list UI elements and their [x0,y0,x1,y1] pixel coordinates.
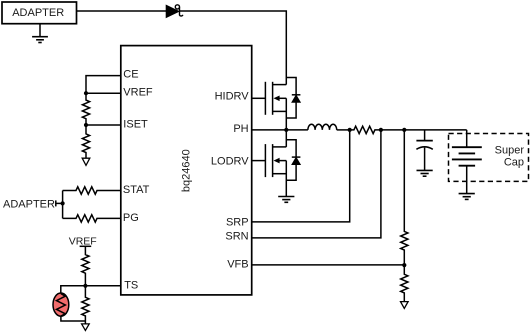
svg-text:Cap: Cap [504,157,524,169]
wire to thermistor [61,286,86,293]
body diode D3 [286,140,296,181]
wire tick to node [56,202,63,204]
sense resistor RS [350,126,381,133]
svg-text:LODRV: LODRV [211,156,249,168]
channel bar Q2 [272,144,274,177]
ground (ADAPTER) [32,37,48,43]
drain stub Q2 [273,146,287,148]
svg-text:PH: PH [233,123,248,135]
gate bar Q1 [264,82,266,115]
source stub Q2 [273,173,287,175]
ADAPTER box [2,2,77,24]
gate bar Q2 [264,144,266,177]
ground triangle (R2) [82,158,90,165]
ground triangle (R8) [401,302,409,309]
wire SRN [252,130,381,238]
supercap battery plates [452,147,482,166]
wire CE to vertical [86,76,121,94]
node TS junction [83,284,87,288]
resistor R7 (upper divider) [401,130,408,265]
wire supercap to ground [466,166,468,194]
gate lead Q1 [252,97,266,99]
channel bar Q1 [272,82,274,115]
svg-text:SRN: SRN [225,231,248,243]
wire PH [252,129,287,131]
drain stub Q1 [273,84,287,86]
source stub Q1 [273,110,287,112]
gate lead Q2 [252,160,266,162]
svg-text:HIDRV: HIDRV [215,90,250,102]
node VFB junction [402,263,406,267]
resistor R4 (TS-gnd) [82,286,89,324]
capacitor C1 [416,140,432,142]
resistor R3 (VREF-TS) [82,246,89,285]
wire inductor to Rsense [337,129,350,131]
wire C1 to ground [424,148,426,171]
wire VFB [252,264,405,266]
drain vertical Q2 [285,130,287,147]
svg-text:SRP: SRP [226,217,249,229]
node VFB top [402,128,406,132]
wire ADAPTER ground lead [39,24,41,37]
wire ISET [86,124,121,126]
node SRP [348,128,352,132]
wire SRP [252,130,350,222]
svg-text:ADAPTER: ADAPTER [3,198,55,210]
resistor R2 (ISET-gnd) [82,125,89,158]
wire D1 cathode to Q1 drain [180,11,287,85]
wire PH to inductor [286,129,308,131]
supercap dashed box [449,134,529,182]
source vertical Q2 [285,161,287,197]
source vertical Q1 [285,98,287,130]
node SRN [379,128,383,132]
resistor R1 (VREF-ISET) [82,93,89,125]
wire TS [85,285,120,287]
IC U1 bq24640 [121,46,252,295]
svg-text:TS: TS [124,279,138,291]
wire output to supercap [466,130,468,147]
svg-text:CE: CE [123,68,138,80]
svg-text:Super: Super [495,144,525,156]
body diode D2 [286,78,296,119]
ground triangle (R4) [82,324,90,331]
svg-text:ISET: ISET [123,118,148,130]
body stub + arrow Q2 [278,160,287,162]
transistor Q2 (LODRV FET) [252,130,301,197]
resistor R5 (STAT) [63,187,121,194]
thermistor RT1 [53,293,69,316]
terminal tick (ADAPTER) [55,200,57,206]
ground (C1) [417,170,433,176]
node ADAPTER junction [61,201,65,205]
wire thermistor bottom [61,316,86,321]
inductor L1 [308,124,337,130]
svg-text:ADAPTER: ADAPTER [12,7,64,19]
svg-text:STAT: STAT [123,184,150,196]
resistor R8 (lower divider) [401,265,408,302]
capacitor C1 lead [424,130,426,141]
wire RS to output [381,129,467,131]
diode D1 (schottky) [166,5,179,17]
resistor R6 (PG) [63,215,121,222]
wire ADAPTER to diode D1 anode [77,10,167,12]
ground (supercap) [459,194,475,200]
node VREF junction [84,91,88,95]
ground (Q2 source) [278,197,294,203]
transistor Q1 (HIDRV FET) [252,78,301,130]
svg-text:VREF: VREF [123,87,153,99]
svg-text:PG: PG [123,212,139,224]
wire vertical STAT-PG [62,191,64,219]
node PH [284,128,288,132]
terminal tick (VREF) [80,245,92,247]
body stub + arrow Q1 [278,97,287,99]
svg-text:VFB: VFB [227,258,248,270]
svg-text:bq24640: bq24640 [181,149,193,192]
wire VREF [86,92,121,94]
node ISET junction [84,123,88,127]
